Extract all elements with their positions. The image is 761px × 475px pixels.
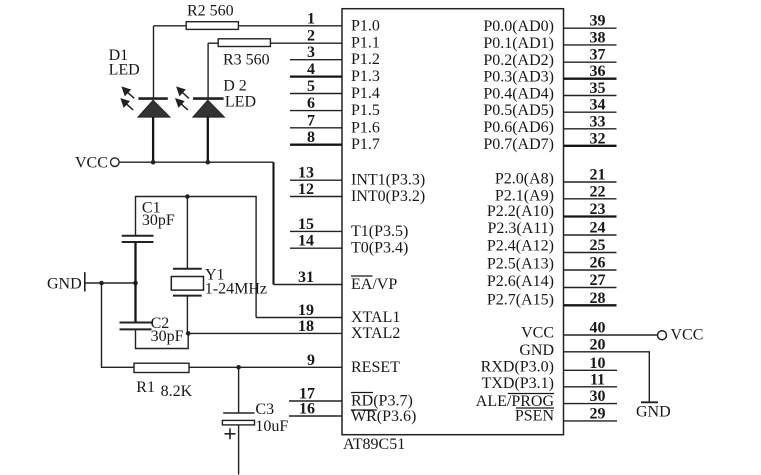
svg-text:D 2: D 2 [223,77,247,94]
LED D2 triangle [193,100,225,117]
wire pin3 stub [290,59,342,61]
wire pin11 stub [564,386,618,388]
svg-text:37: 37 [590,47,606,64]
svg-text:30pF: 30pF [142,212,175,229]
svg-text:P0.0(AD0): P0.0(AD0) [483,18,554,35]
wire pin19 XTAL1 [256,317,342,319]
svg-text:C3: C3 [255,401,274,418]
svg-text:P1.7: P1.7 [351,136,380,153]
svg-text:P2.2(A10): P2.2(A10) [487,203,554,220]
svg-text:P0.2(AD2): P0.2(AD2) [483,52,554,69]
svg-text:P0.4(AD4): P0.4(AD4) [483,86,554,103]
overline PROG [508,393,554,395]
svg-text:PSEN: PSEN [515,408,555,425]
wire pin29 stub [564,420,618,422]
LED D1 arrow 1 [123,88,135,99]
svg-text:12: 12 [298,181,314,198]
wire pin35 stub [564,95,617,97]
svg-text:29: 29 [590,405,606,422]
wire pin30 stub [564,403,618,405]
wire pin24 stub [564,234,617,236]
wire XTAL top rail [136,197,257,318]
svg-text:25: 25 [590,237,606,254]
wire pin40 to VCC node [564,334,658,336]
svg-text:XTAL1: XTAL1 [351,309,400,326]
LED D1 [122,26,170,162]
wire pin22 stub [564,198,617,200]
crystal bottom plate [173,295,202,297]
svg-text:P2.6(A14): P2.6(A14) [487,273,554,290]
svg-text:P0.5(AD5): P0.5(AD5) [483,102,554,119]
svg-text:VCC: VCC [671,327,704,344]
overline PSEN [516,407,554,409]
wire pin28 stub [564,304,617,306]
crystal body [171,277,203,291]
wire pin39 stub [564,27,617,29]
wire pin2 left segment [208,42,218,44]
LED D1 triangle [138,100,170,117]
svg-text:TXD(P3.1): TXD(P3.1) [482,375,554,392]
wire pin23 stub [564,215,617,217]
svg-text:INT0(P3.2): INT0(P3.2) [351,188,425,205]
svg-text:33: 33 [590,113,606,130]
svg-text:P1.3: P1.3 [351,68,380,85]
wire pin37 stub [564,61,617,63]
svg-text:40: 40 [590,320,606,337]
svg-text:RXD(P3.0): RXD(P3.0) [481,358,554,375]
wire pin20 to GND [564,352,650,403]
LED D2 arrow 1 [177,88,189,99]
resistor R2 [186,22,238,30]
junction D2 on VCC rail [206,160,211,165]
svg-text:8.2K: 8.2K [161,383,193,400]
overline RD [351,392,373,394]
overline WR [351,409,377,411]
svg-text:6: 6 [307,95,315,112]
svg-text:5: 5 [307,78,315,95]
svg-text:XTAL2: XTAL2 [351,325,400,342]
node VCC left terminal circle [111,158,120,167]
svg-text:21: 21 [590,167,606,184]
wire pin7 stub [290,127,342,129]
svg-text:EA/VP: EA/VP [351,276,397,293]
svg-text:38: 38 [590,29,606,46]
wire D1 to VCC rail [152,117,154,162]
svg-text:R2 560: R2 560 [187,3,234,20]
svg-text:30: 30 [590,388,606,405]
svg-text:3: 3 [307,44,315,61]
svg-text:19: 19 [298,302,314,319]
capacitor C2 [120,323,152,330]
svg-text:VCC: VCC [75,155,108,172]
junction C1C2 branch [133,281,138,286]
wire pin27 stub [564,287,617,289]
svg-text:P1.0: P1.0 [351,17,380,34]
svg-text:4: 4 [307,61,315,78]
wire pin21 stub [564,181,617,183]
junction C3 on reset wire [236,365,241,370]
junction GND wire down [99,281,104,286]
LED D2 [176,43,224,162]
svg-text:14: 14 [298,233,314,250]
svg-text:2: 2 [307,28,315,45]
svg-text:36: 36 [590,63,606,80]
svg-text:GND: GND [519,342,554,359]
wire GND to C1C2 branch [86,282,136,284]
svg-text:P2.7(A15): P2.7(A15) [487,291,554,308]
wire GND down to R1 [102,283,135,367]
wire pin31 to IC [274,284,343,286]
svg-text:30pF: 30pF [151,328,184,345]
svg-text:GND: GND [636,403,671,420]
svg-text:1: 1 [307,10,315,27]
svg-text:VCC: VCC [521,325,554,342]
svg-text:P1.6: P1.6 [351,119,380,136]
wire pin17 stub [289,400,342,402]
wire pin26 stub [564,269,617,271]
junction D1 on VCC rail [151,160,156,165]
svg-text:P2.1(A9): P2.1(A9) [495,187,554,204]
op-amp U1 AT89C51 IC body [342,9,564,435]
svg-text:RESET: RESET [351,359,400,376]
svg-text:P0.3(AD3): P0.3(AD3) [483,69,554,86]
svg-text:LED: LED [225,94,256,111]
resistor R1 [134,363,189,372]
svg-text:P2.3(A11): P2.3(A11) [487,220,554,237]
wire pin15 stub [290,230,342,232]
ground left terminal bar [84,272,86,291]
svg-text:28: 28 [590,290,606,307]
crystal Y1 [171,197,203,334]
svg-text:20: 20 [590,336,606,353]
ground right bar [641,401,658,403]
svg-text:8: 8 [307,129,315,146]
svg-text:P0.7(AD7): P0.7(AD7) [483,136,554,153]
svg-text:15: 15 [298,216,314,233]
overline EA [351,275,373,277]
svg-text:LED: LED [109,61,140,78]
svg-text:INT1(P3.3): INT1(P3.3) [351,172,425,189]
svg-text:P2.5(A13): P2.5(A13) [487,256,554,273]
svg-text:10: 10 [590,355,606,372]
capacitor C3 [222,367,254,474]
LED D1 cathode bar [138,97,167,100]
LED D1 arrow 2 [122,99,134,110]
svg-text:22: 22 [590,183,606,200]
svg-text:RD(P3.7): RD(P3.7) [351,393,413,410]
svg-text:7: 7 [307,112,315,129]
wire C3 down [238,425,240,475]
svg-text:P1.2: P1.2 [351,51,380,68]
wire pin34 stub [564,111,617,113]
C3 bottom plate box [222,420,254,425]
wire pin9 RESET to IC [189,366,342,368]
svg-text:24: 24 [590,220,606,237]
svg-text:1-24MHz: 1-24MHz [205,280,267,297]
LED D2 cathode bar [193,97,224,100]
wire reset junction down to C3 [238,367,240,413]
wire top rail to Y1 [186,197,188,269]
wire pin13 stub [290,179,342,181]
svg-text:31: 31 [298,269,314,286]
svg-text:AT89C51: AT89C51 [343,436,405,453]
wire pin25 stub [564,252,617,254]
svg-text:27: 27 [590,272,606,289]
wire pin1 left segment [154,25,187,27]
wire C2 bottom U path [136,329,189,348]
svg-text:P0.1(AD1): P0.1(AD1) [483,35,554,52]
svg-text:P1.4: P1.4 [351,85,380,102]
wire pin18 XTAL2 [188,332,342,334]
junction XTAL2 net [186,331,191,336]
node VCC right terminal circle [658,331,667,340]
svg-text:23: 23 [590,201,606,218]
svg-text:13: 13 [298,165,314,182]
svg-text:39: 39 [590,13,606,30]
junction crystal top [185,194,190,199]
wire pin14 stub [290,247,342,249]
LED D2 arrow 2 [176,99,188,110]
wire pin36 stub [564,78,617,80]
svg-text:P1.5: P1.5 [351,102,380,119]
svg-text:32: 32 [590,130,606,147]
svg-text:P2.0(A8): P2.0(A8) [495,171,554,188]
svg-text:34: 34 [590,97,606,114]
C3 top plate [223,412,254,414]
wire R2 down to D1 [153,26,155,98]
capacitor C1 [122,236,154,242]
wire pin32 stub [564,145,617,147]
wire R3 down to D2 [207,43,209,97]
resistor R3 [218,39,270,47]
wire pin8 stub [290,144,342,146]
svg-text:9: 9 [307,352,315,369]
wire pin1 to IC [238,25,342,27]
wire VCC rail [119,161,273,163]
svg-text:35: 35 [590,80,606,97]
wire pin5 stub [290,93,342,95]
svg-text:P2.4(A12): P2.4(A12) [487,238,554,255]
wire pin6 stub [290,110,342,112]
svg-text:T1(P3.5): T1(P3.5) [351,223,408,240]
svg-text:P0.6(AD6): P0.6(AD6) [483,119,554,136]
wire pin10 stub [564,369,618,371]
wire D2 to VCC rail [207,117,209,162]
wire pin38 stub [564,44,617,46]
svg-text:10uF: 10uF [255,418,288,435]
svg-text:P1.1: P1.1 [351,35,380,52]
wire pin2 to IC [270,42,342,44]
svg-text:26: 26 [590,255,606,272]
svg-text:11: 11 [590,371,605,388]
svg-text:R3 560: R3 560 [223,52,270,69]
svg-text:18: 18 [298,318,314,335]
wire pin12 stub [290,196,342,198]
wire Y1 bottom down [186,296,188,334]
svg-text:R1: R1 [136,379,155,396]
wire pin33 stub [564,128,617,130]
wire C1 to C2 [134,242,136,322]
svg-text:T0(P3.4): T0(P3.4) [351,240,408,257]
svg-text:GND: GND [47,275,82,292]
wire VCC rail down to pin31 [272,162,274,284]
wire pin4 stub [290,75,342,77]
wire pin16 stub [289,415,342,417]
C3 plus sign [225,428,236,439]
crystal top plate [173,268,202,270]
svg-text:16: 16 [299,401,315,418]
